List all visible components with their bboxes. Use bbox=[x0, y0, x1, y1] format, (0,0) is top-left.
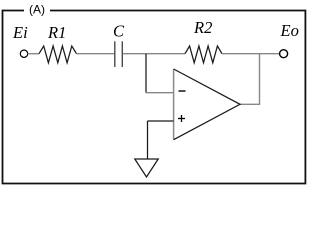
svg-text:(A): (A) bbox=[29, 3, 45, 17]
wire R1 to C bbox=[77, 53, 115, 55]
wire to inverting input bbox=[146, 92, 174, 94]
capacitor C bbox=[114, 41, 116, 67]
svg-text:C: C bbox=[113, 22, 125, 41]
op-amp minus input sign bbox=[179, 90, 186, 92]
ground bbox=[135, 159, 158, 177]
op-amp U1 triangle slants bbox=[174, 69, 240, 140]
resistor R2 bbox=[185, 46, 222, 63]
resistor R1 bbox=[39, 46, 77, 63]
svg-text:R1: R1 bbox=[47, 23, 66, 42]
wire output node to terminal bbox=[260, 53, 280, 55]
wire non-inverting input bbox=[148, 120, 174, 122]
wire R2 to output node bbox=[222, 53, 260, 55]
wire output node down to op-amp output bbox=[240, 54, 260, 105]
input terminal circle Ei bbox=[20, 50, 27, 57]
svg-text:Eo: Eo bbox=[280, 21, 299, 40]
wire C to R2 (through junction node) bbox=[123, 53, 185, 55]
svg-text:R2: R2 bbox=[193, 18, 212, 37]
op-amp U1 left edge bbox=[173, 69, 175, 140]
op-amp plus input sign bbox=[178, 118, 185, 120]
output terminal circle Eo bbox=[280, 50, 288, 58]
svg-text:Ei: Ei bbox=[12, 23, 28, 42]
wire down to ground bbox=[147, 121, 149, 159]
node junction to inverting input: vertical drop bbox=[145, 54, 147, 93]
border frame with legend gap bbox=[3, 11, 306, 184]
wire input circle to R1 bbox=[28, 53, 39, 55]
